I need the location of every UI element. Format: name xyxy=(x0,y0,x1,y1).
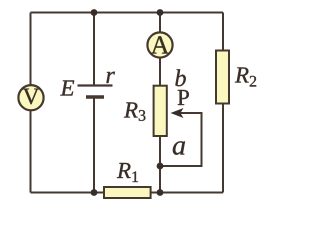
node a xyxy=(173,141,185,154)
label P xyxy=(178,90,189,105)
resistor R1 xyxy=(104,187,151,198)
ammeter A xyxy=(147,32,172,57)
wire: top horizontal xyxy=(31,12,224,14)
wiper P arrow and return wire xyxy=(160,108,202,166)
label R1 xyxy=(117,163,138,182)
resistor R3 (rheostat body) xyxy=(154,86,167,136)
wire: battery branch lower segment xyxy=(93,97,95,193)
label r xyxy=(106,72,114,83)
junction: middle branch / top wire xyxy=(157,9,164,16)
label R2 xyxy=(235,67,256,86)
wire: left branch vertical xyxy=(30,13,32,193)
junction: wiper return / middle branch xyxy=(157,163,164,170)
junction: middle branch / bottom wire xyxy=(157,189,164,196)
battery E with internal resistance r xyxy=(78,86,113,98)
resistor R2 xyxy=(216,51,229,104)
voltmeter V xyxy=(18,85,43,110)
wire: battery branch upper segment xyxy=(93,13,95,86)
node b xyxy=(175,69,185,86)
junction: battery branch / top wire xyxy=(91,9,98,16)
label E xyxy=(60,80,74,95)
label R3 xyxy=(124,102,146,120)
junction: battery branch / bottom wire xyxy=(91,189,98,196)
wire: right branch vertical xyxy=(222,13,224,193)
wire: middle branch vertical (ammeter/R3) xyxy=(159,13,161,193)
wire: bottom horizontal xyxy=(31,192,224,194)
